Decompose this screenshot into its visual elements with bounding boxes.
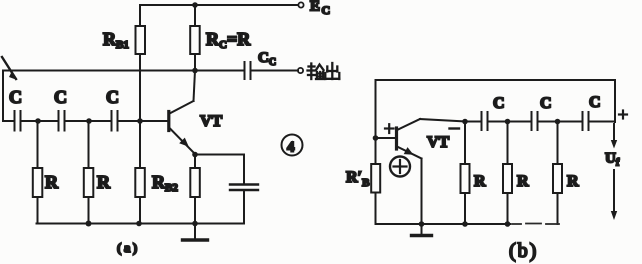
capacitor C2 (b)	[531, 112, 533, 130]
node: junction of RC with supply rail	[192, 2, 198, 8]
wire	[65, 120, 112, 122]
svg-text:C: C	[54, 87, 67, 107]
wire	[488, 121, 532, 123]
plus sign near base	[385, 124, 394, 133]
terminal EC open circle	[298, 2, 303, 7]
wire: top rail of (b)	[376, 79, 616, 81]
glyph 出	[331, 63, 333, 79]
svg-text:R: R	[517, 173, 529, 190]
node 3 on chain (b)	[555, 119, 561, 125]
resistor RB2	[139, 121, 141, 168]
svg-text:RB1: RB1	[103, 29, 129, 51]
resistor Rb1 (b)	[464, 122, 466, 165]
svg-text:CC: CC	[258, 50, 276, 68]
node	[192, 221, 198, 227]
svg-text:R: R	[567, 173, 579, 190]
switch slash mark at left end	[2, 57, 16, 79]
resistor R1 (a)	[37, 121, 39, 168]
collector lead	[170, 101, 194, 114]
node 2 on chain (b)	[505, 119, 511, 125]
node 1 on chain (b)	[462, 119, 468, 125]
resistor R2 (a)	[88, 121, 90, 168]
svg-text:R: R	[45, 172, 59, 192]
ground (a)	[194, 224, 196, 239]
resistor Rb2 (b)	[507, 122, 509, 165]
svg-text:R: R	[97, 172, 111, 192]
wire: bottom rail of (a)	[37, 223, 245, 225]
node	[86, 118, 92, 124]
svg-text:VT: VT	[200, 113, 223, 130]
node: emitter junction	[192, 152, 198, 158]
svg-text:EC: EC	[310, 0, 330, 17]
svg-text:RB2: RB2	[152, 172, 178, 194]
node	[462, 221, 468, 227]
capacitor C2 of chain (a)	[58, 111, 60, 131]
glyph 输	[309, 65, 315, 67]
node	[419, 221, 425, 227]
wire	[21, 120, 59, 122]
svg-text:C: C	[540, 95, 552, 112]
svg-text:(b): (b)	[509, 240, 538, 262]
wire: left vertical of feedback network	[2, 71, 4, 122]
node	[505, 221, 511, 227]
resistor RB1	[139, 5, 141, 26]
svg-text:4: 4	[287, 140, 295, 156]
svg-text:R′B: R′B	[346, 169, 370, 189]
svg-text:C: C	[106, 87, 119, 107]
capacitor CC	[244, 62, 246, 79]
ground (b)	[421, 224, 423, 234]
capacitor C1 (b)	[481, 112, 483, 130]
resistor RE (emitter, unlabeled)	[194, 155, 196, 169]
node	[86, 221, 92, 227]
node: bias junction on base line	[137, 118, 143, 124]
svg-text:C: C	[589, 94, 601, 111]
svg-text:(a): (a)	[117, 240, 140, 255]
collector lead (b)	[397, 119, 420, 130]
wire: RB1 down to base line (crosses output wire, no dot)	[139, 54, 141, 121]
emitter lead with arrow (b)	[397, 147, 422, 159]
wire: right vertical of (b)	[614, 80, 616, 122]
wire: collector vertical down to transistor	[194, 71, 196, 102]
wire: left vertical of (b)	[375, 80, 377, 138]
wire: base lead	[376, 137, 397, 139]
source circle with plus	[390, 157, 410, 177]
resistor Rb3 (b)	[557, 122, 559, 165]
wire: bottom rail of (b)	[376, 223, 511, 225]
svg-text:RC=R: RC=R	[206, 29, 251, 51]
terminal output open circle	[298, 68, 303, 73]
node: collector/output junction	[192, 68, 198, 74]
wire: to transistor base	[118, 120, 169, 122]
resistor R'B	[375, 138, 377, 164]
circled number 4	[282, 135, 303, 156]
plus sign at Uf top	[619, 111, 627, 119]
wire	[465, 121, 481, 123]
emitter lead with arrow	[170, 128, 196, 154]
wire: output/feedback rail	[3, 70, 244, 72]
capacitor C1 of chain (a)	[14, 111, 16, 131]
capacitor C3 (b)	[582, 112, 584, 130]
transistor VT (b): base bar	[395, 128, 398, 149]
node	[136, 221, 142, 227]
wire: emitter to bypass capacitor	[195, 154, 244, 156]
Uf arrow lower segment	[613, 170, 615, 213]
node	[35, 118, 41, 124]
svg-text:R: R	[474, 173, 486, 190]
wire	[538, 121, 583, 123]
svg-text:C: C	[493, 95, 505, 112]
wire to right rail	[589, 121, 616, 123]
minus sign at collector output	[450, 127, 460, 129]
svg-text:C: C	[9, 87, 22, 107]
wire: top supply rail of circuit (a)	[140, 4, 298, 6]
svg-text:VT: VT	[427, 134, 450, 151]
transistor VT (a): base bar	[167, 112, 170, 131]
capacitor CE (bypass)	[230, 183, 258, 185]
label 输出 (drawn glyphs)	[308, 63, 340, 79]
Uf arrow upper segment	[613, 124, 615, 142]
resistor RC	[194, 5, 196, 26]
node: base node (b)	[373, 135, 379, 141]
capacitor C3 of chain (a)	[111, 111, 113, 131]
svg-text:Uf: Uf	[605, 151, 620, 169]
wire: faded dashed bottom rail right portion	[512, 223, 559, 226]
